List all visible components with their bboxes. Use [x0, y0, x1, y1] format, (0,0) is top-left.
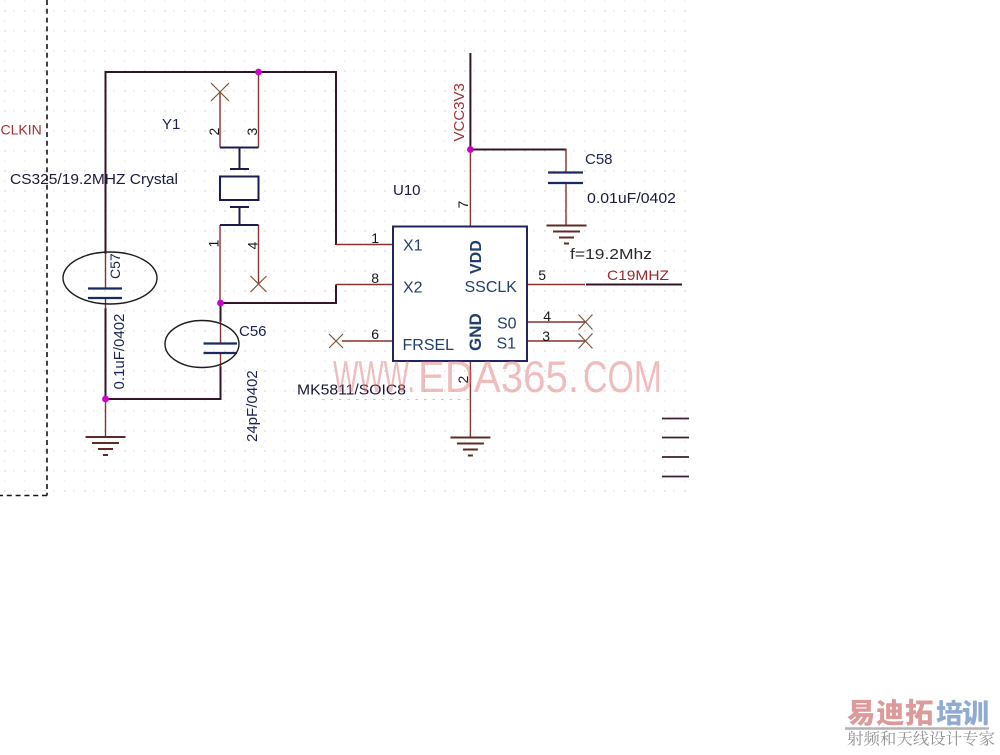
svg-text:3: 3	[244, 128, 260, 136]
svg-text:C19MHZ: C19MHZ	[607, 267, 669, 283]
svg-text:GND: GND	[466, 313, 485, 351]
svg-text:FRSEL: FRSEL	[403, 337, 455, 354]
svg-text:CLKIN: CLKIN	[1, 122, 42, 138]
svg-text:0.01uF/0402: 0.01uF/0402	[587, 190, 676, 207]
svg-text:8: 8	[371, 270, 379, 286]
svg-text:WWW.: WWW.	[333, 353, 415, 402]
svg-text:1: 1	[206, 240, 222, 248]
svg-text:COM: COM	[583, 353, 662, 402]
svg-text:EDA365.: EDA365.	[418, 353, 579, 402]
svg-text:1: 1	[371, 230, 379, 246]
svg-text:VCC3V3: VCC3V3	[451, 83, 468, 141]
svg-text:SSCLK: SSCLK	[465, 279, 518, 296]
svg-text:S0: S0	[497, 316, 517, 333]
svg-text:Y1: Y1	[162, 116, 180, 133]
svg-text:C57: C57	[107, 253, 123, 279]
svg-text:0.1uF/0402: 0.1uF/0402	[111, 314, 128, 390]
svg-text:7: 7	[455, 201, 471, 209]
svg-text:S1: S1	[497, 336, 517, 353]
svg-text:C58: C58	[585, 151, 613, 168]
svg-text:U10: U10	[393, 182, 421, 199]
svg-text:CS325/19.2MHZ Crystal: CS325/19.2MHZ Crystal	[10, 171, 178, 188]
svg-text:X2: X2	[403, 280, 423, 297]
svg-text:2: 2	[206, 128, 222, 136]
svg-text:6: 6	[371, 326, 379, 342]
svg-text:3: 3	[542, 328, 550, 344]
svg-text:4: 4	[245, 242, 261, 250]
svg-text:VDD: VDD	[468, 240, 485, 274]
svg-text:4: 4	[543, 308, 551, 324]
svg-text:C56: C56	[239, 323, 267, 340]
svg-text:f=19.2Mhz: f=19.2Mhz	[570, 246, 652, 263]
svg-text:5: 5	[538, 267, 546, 283]
svg-text:24pF/0402: 24pF/0402	[244, 370, 261, 442]
svg-text:X1: X1	[403, 238, 423, 255]
